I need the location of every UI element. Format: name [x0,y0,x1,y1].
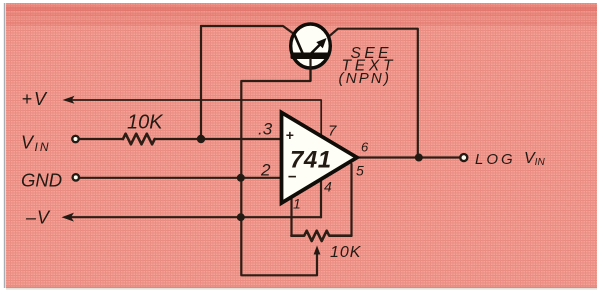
svg-text:LOG: LOG [475,151,516,168]
svg-text:4: 4 [324,179,332,195]
svg-text:10K: 10K [127,112,164,134]
svg-text:10K: 10K [330,244,362,261]
svg-text:−: − [288,169,297,186]
svg-text:6: 6 [361,140,369,155]
svg-text:–V: –V [25,208,51,228]
svg-text:7: 7 [328,123,337,140]
svg-text:.3: .3 [258,120,273,139]
svg-text:+: + [286,127,294,143]
svg-text:2: 2 [260,161,271,180]
svg-text:1: 1 [293,196,301,212]
svg-text:(NPN): (NPN) [339,70,392,87]
svg-text:GND: GND [21,170,62,191]
svg-text:+V: +V [22,89,49,109]
svg-text:5: 5 [356,163,364,179]
